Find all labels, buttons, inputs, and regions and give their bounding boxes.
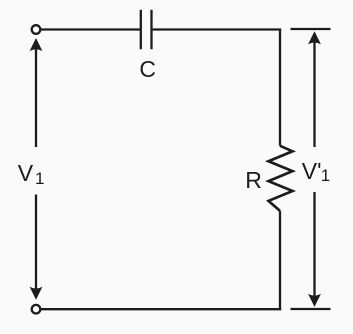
svg-text:1: 1 — [321, 166, 330, 185]
svg-text:C: C — [139, 56, 156, 82]
svg-text:1: 1 — [35, 169, 44, 188]
svg-text:V: V — [18, 160, 34, 186]
svg-text:R: R — [245, 167, 262, 193]
svg-text:V': V' — [302, 158, 322, 184]
